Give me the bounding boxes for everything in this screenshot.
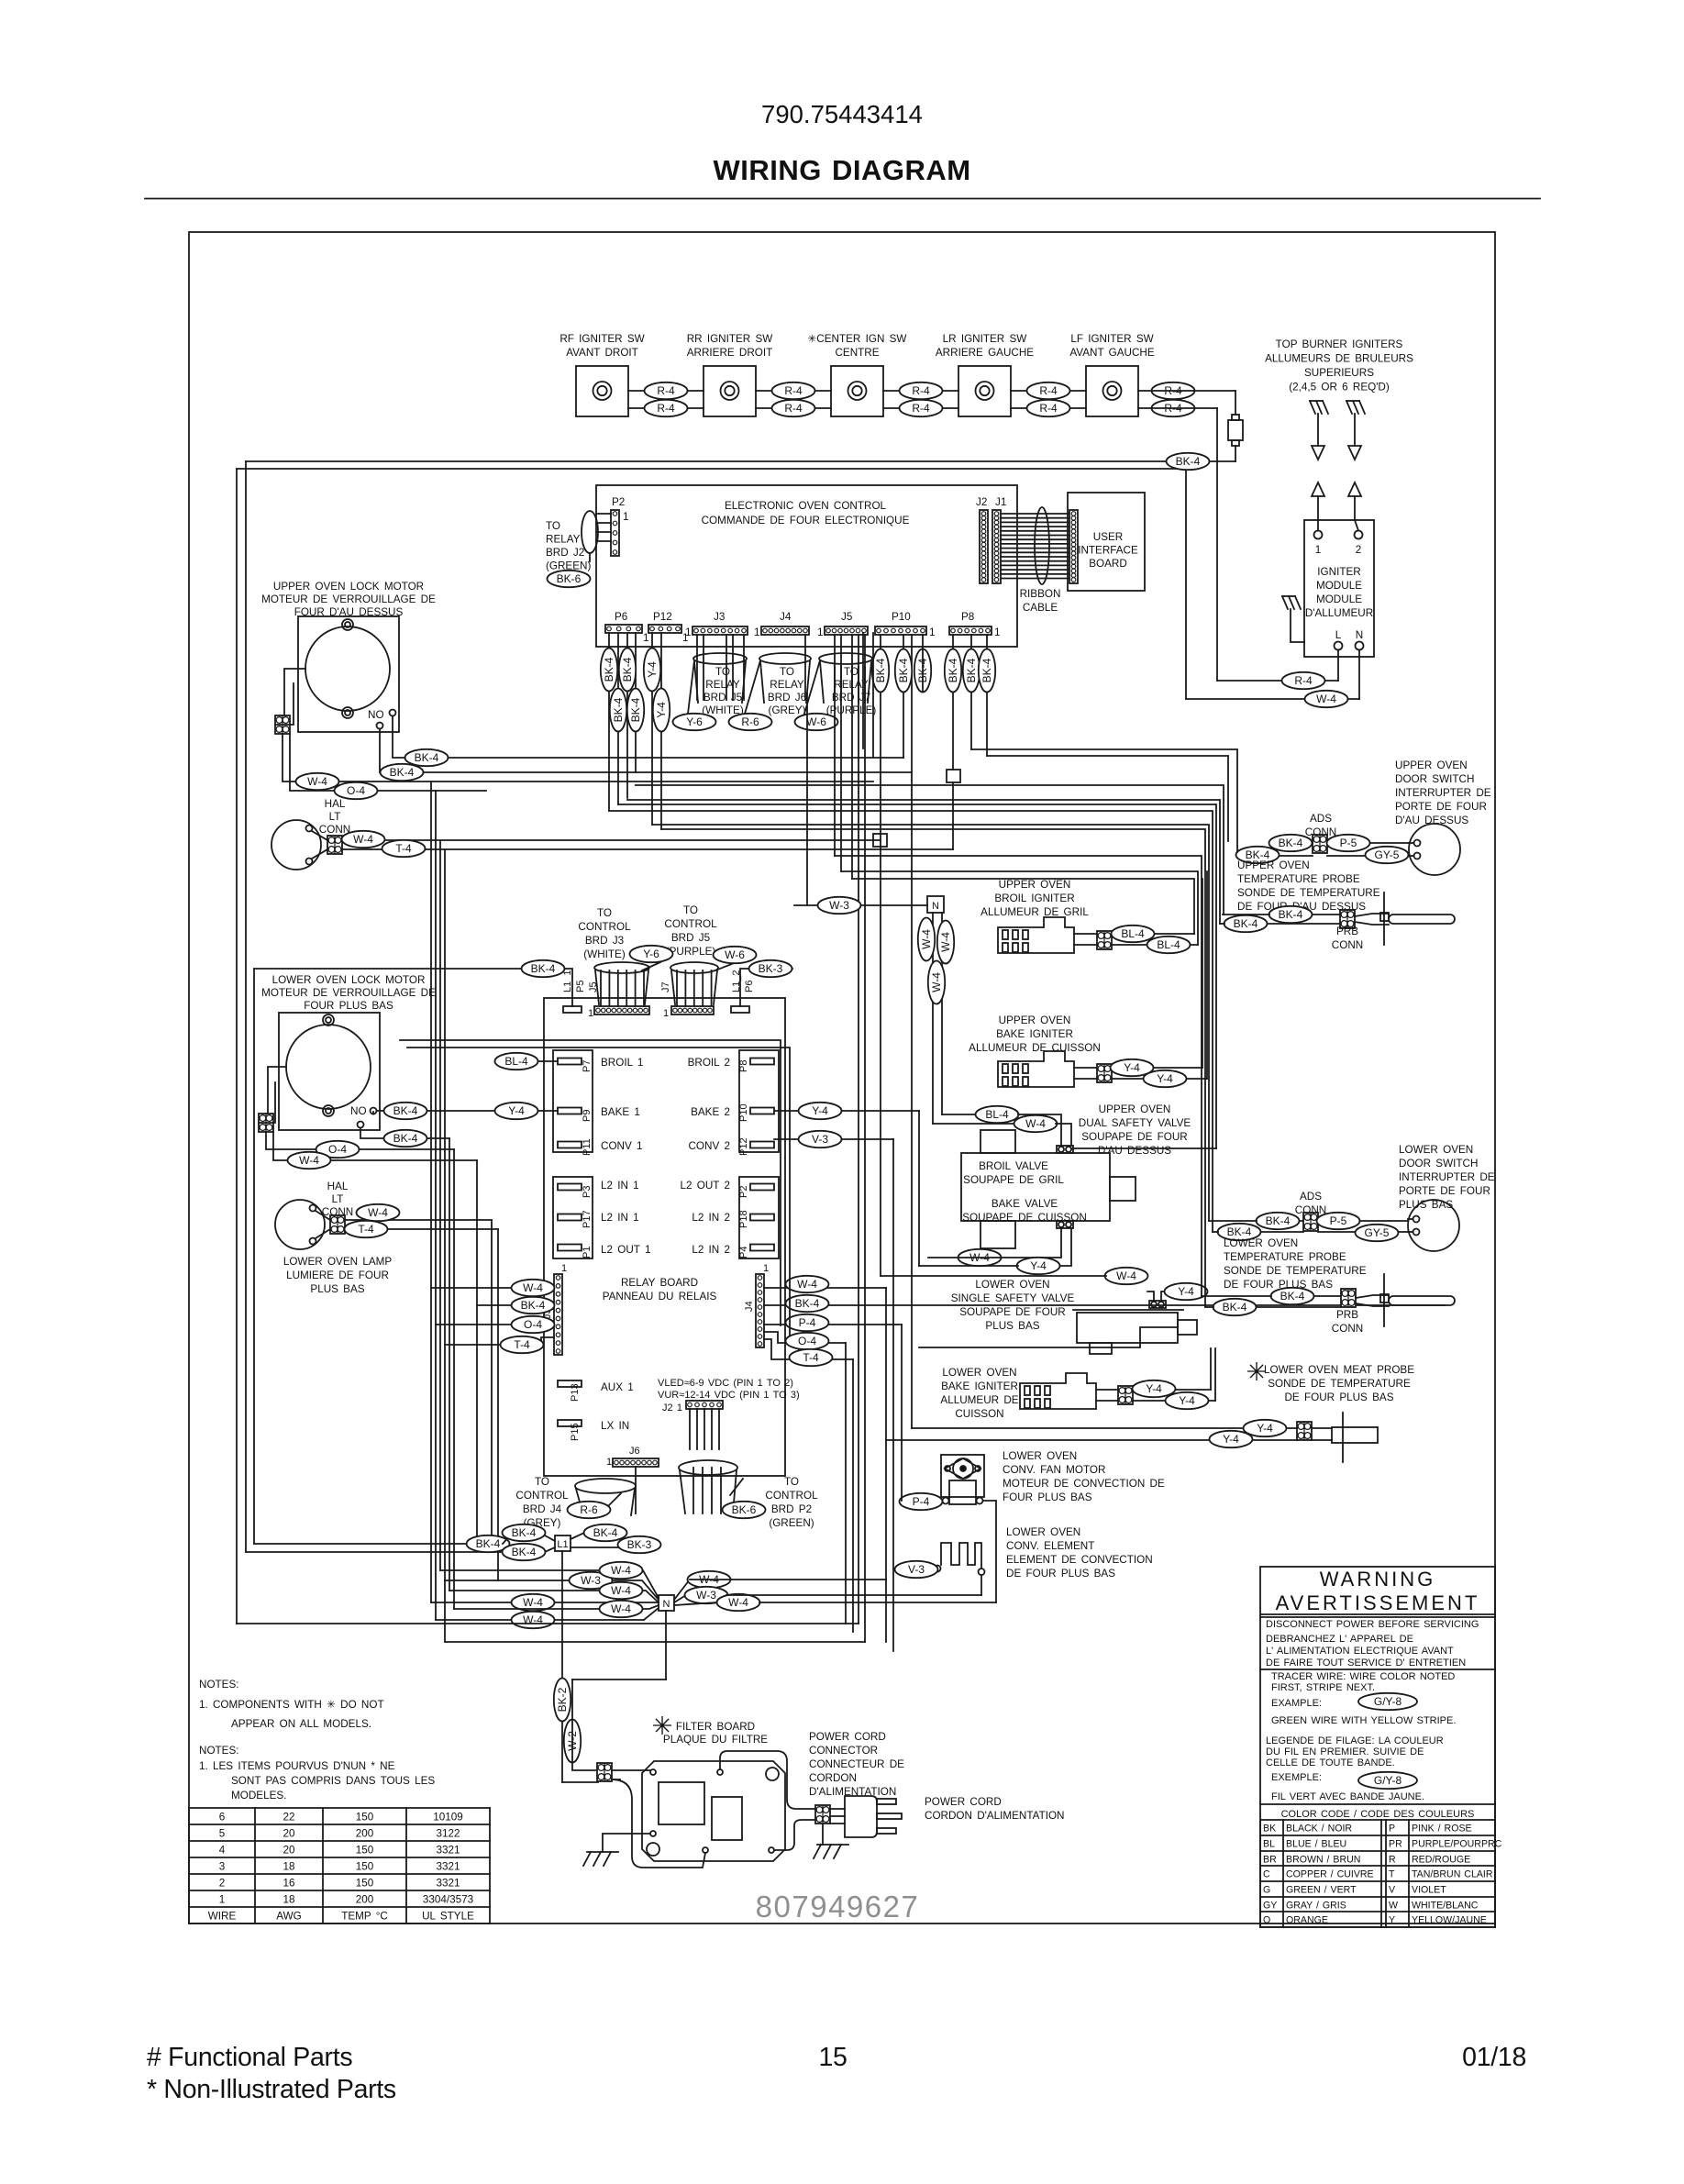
svg-text:DE FAIRE TOUT SERVICE D' E: DE FAIRE TOUT SERVICE D' ENTRETIEN: [1266, 1657, 1466, 1668]
wire mid: [806, 693, 808, 905]
svg-text:AVERTISSEMENT: AVERTISSEMENT: [1276, 1591, 1480, 1614]
svg-text:TRACER WIRE: WIRE COLOR NOT: TRACER WIRE: WIRE COLOR NOTED: [1271, 1671, 1455, 1682]
P2 cable oval: [582, 511, 598, 553]
svg-text:FOUR PLUS BAS: FOUR PLUS BAS: [1003, 1491, 1092, 1503]
svg-text:BK-4: BK-4: [393, 1104, 418, 1117]
wires ADS2: [1257, 1220, 1303, 1222]
warning separator 1: [1260, 1613, 1495, 1615]
svg-text:200: 200: [356, 1828, 374, 1840]
svg-text:1: 1: [663, 1008, 669, 1019]
svg-text:W-4: W-4: [1316, 693, 1336, 705]
wire label Y-4: [1166, 1392, 1209, 1409]
connector J1: [992, 510, 1001, 583]
wire to valve connector: [1071, 1147, 1216, 1149]
svg-text:R-4: R-4: [784, 384, 803, 397]
svg-text:P1: P1: [582, 1247, 593, 1258]
svg-text:RED/ROUGE: RED/ROUGE: [1412, 1855, 1470, 1866]
svg-text:O: O: [1263, 1915, 1270, 1926]
svg-text:200: 200: [356, 1894, 374, 1906]
wire label BK-4: [979, 649, 995, 693]
svg-text:ADS: ADS: [1300, 1191, 1322, 1203]
svg-text:P7: P7: [582, 1060, 593, 1072]
temp probe symbol: [1383, 892, 1385, 945]
svg-text:SONT PAS COMPRIS DANS TOUS: SONT PAS COMPRIS DANS TOUS LES: [231, 1775, 435, 1787]
svg-text:IGNITER: IGNITER: [1317, 566, 1360, 578]
svg-text:L2 OUT 1: L2 OUT 1: [601, 1244, 650, 1256]
svg-text:6: 6: [219, 1812, 226, 1824]
svg-text:2: 2: [219, 1878, 226, 1890]
svg-text:CONV. FAN MOTOR: CONV. FAN MOTOR: [1003, 1464, 1105, 1476]
filter component 2: [712, 1797, 742, 1840]
pin P3: [558, 1184, 582, 1191]
svg-text:150: 150: [356, 1812, 374, 1824]
svg-text:1: 1: [754, 626, 760, 638]
svg-text:22: 22: [283, 1812, 294, 1824]
filter pad 4: [703, 1847, 708, 1853]
wire label BK-4: [1167, 453, 1210, 470]
wire label BK-4: [1269, 835, 1313, 851]
bundle wire v: [845, 1343, 847, 1624]
wire from L: [1337, 650, 1339, 682]
svg-text:Y-4: Y-4: [1257, 1422, 1273, 1435]
svg-text:BK-4: BK-4: [980, 658, 993, 682]
J4 cable bundle: [804, 635, 806, 700]
connector P10: [875, 626, 926, 635]
svg-text:BK-4: BK-4: [476, 1537, 501, 1550]
svg-text:1: 1: [606, 1457, 612, 1468]
svg-text:P18: P18: [738, 1210, 749, 1228]
bundle wire: [439, 840, 441, 1570]
wire T-4 lamp: [342, 848, 953, 850]
wire label Y-4: [644, 649, 660, 692]
motor mount bottom: [342, 707, 353, 718]
svg-text:MOTEUR DE VERROUILLAGE DE: MOTEUR DE VERROUILLAGE DE: [261, 593, 436, 605]
wire label W-4: [688, 1571, 731, 1588]
svg-text:CONN: CONN: [1332, 939, 1363, 951]
J3 cable bundle: [696, 635, 698, 700]
svg-text:L2 OUT 2: L2 OUT 2: [681, 1180, 730, 1192]
wire label W-4: [512, 1612, 555, 1628]
svg-text:POWER CORD: POWER CORD: [925, 1796, 1002, 1808]
svg-text:R-4: R-4: [1039, 384, 1058, 397]
wire label W-2: [564, 1720, 581, 1763]
PRB connector 2: [1341, 1289, 1356, 1307]
svg-text:P8: P8: [738, 1060, 749, 1072]
wire label BL-4: [495, 1053, 538, 1070]
svg-text:BR: BR: [1263, 1855, 1277, 1866]
wire: [872, 633, 874, 758]
wire R-4 top: [756, 390, 831, 392]
wire fan right: [983, 1501, 997, 1602]
svg-text:O-4: O-4: [798, 1335, 816, 1347]
svg-text:LX IN: LX IN: [601, 1420, 629, 1432]
svg-text:Y-4: Y-4: [1179, 1394, 1195, 1407]
svg-text:VIOLET: VIOLET: [1412, 1885, 1446, 1896]
lock motor connector: [259, 1114, 273, 1132]
plug prong 2: [877, 1813, 902, 1819]
svg-text:2: 2: [1356, 544, 1362, 556]
wire label W-4: [512, 1594, 555, 1611]
svg-text:1: 1: [763, 1263, 769, 1274]
meat probe connector: [1297, 1422, 1312, 1440]
wire label W-4: [1305, 691, 1348, 707]
svg-text:LOWER OVEN MEAT PROBE: LOWER OVEN MEAT PROBE: [1264, 1364, 1414, 1376]
wires connector to plug: [830, 1808, 845, 1810]
igniter connector 3: [1118, 1386, 1133, 1404]
UIB connector: [1069, 510, 1078, 583]
wire BK-3 to P6: [740, 969, 792, 1006]
wire W-4 to N: [454, 1605, 659, 1609]
diagram border: [189, 232, 1495, 1923]
svg-text:P12: P12: [738, 1137, 749, 1156]
svg-text:W-6: W-6: [725, 948, 745, 961]
relay connector J6: [613, 1458, 659, 1467]
svg-text:P10: P10: [738, 1103, 749, 1122]
P2 wire: [596, 540, 611, 542]
J2 wires down: [689, 1409, 691, 1449]
wire label W-3: [570, 1572, 613, 1589]
svg-text:TO: TO: [844, 666, 859, 678]
igniter switch 5: [1086, 366, 1138, 416]
pin P13: [558, 1380, 582, 1387]
svg-text:NO: NO: [350, 1105, 367, 1117]
wire R-4 top: [883, 390, 958, 392]
meat probe symbol: [1342, 1413, 1344, 1462]
svg-text:TEMPERATURE PROBE: TEMPERATURE PROBE: [1224, 1251, 1346, 1263]
pin P9: [558, 1108, 582, 1114]
svg-text:GY: GY: [1263, 1901, 1277, 1912]
svg-text:P6: P6: [744, 981, 755, 992]
ADS connector 2: [1303, 1213, 1318, 1231]
wire BL-4 to P7: [495, 1060, 558, 1062]
wire label R-4: [645, 382, 688, 399]
wire from J5 bundle: [834, 667, 836, 856]
stub: [1209, 1220, 1257, 1222]
wire R-4 vertical to module L: [1216, 408, 1218, 681]
connector J3: [692, 626, 748, 635]
svg-text:UPPER OVEN: UPPER OVEN: [1237, 859, 1310, 871]
svg-text:P8: P8: [961, 611, 974, 623]
svg-text:3321: 3321: [436, 1845, 460, 1857]
svg-text:FIRST, STRIPE NEXT.: FIRST, STRIPE NEXT.: [1271, 1682, 1375, 1693]
wire label W-4: [928, 961, 945, 1004]
upper door switch S1: [1409, 824, 1460, 875]
svg-text:RELAY BOARD: RELAY BOARD: [621, 1277, 698, 1289]
wire W-4 from J4: [764, 1287, 886, 1289]
svg-text:1. LES ITEMS POURVUS D'NU: 1. LES ITEMS POURVUS D'NUN * NE: [199, 1760, 395, 1772]
svg-text:AVANT DROIT: AVANT DROIT: [566, 347, 638, 359]
svg-text:AWG: AWG: [276, 1911, 301, 1923]
valve bottom tube: [980, 1221, 1015, 1248]
svg-text:LEGENDE DE FILAGE: LA COULEU: LEGENDE DE FILAGE: LA COULEUR: [1266, 1735, 1444, 1746]
svg-text:W-4: W-4: [611, 1564, 631, 1577]
wire BK-4 probe: [1269, 914, 1340, 915]
bundle wire: [449, 1138, 450, 1591]
ribbon cable lines: [1001, 513, 1071, 515]
color code table: [1260, 1819, 1495, 1821]
svg-text:VUR≈12-14 VDC (PIN 1 TO 3): VUR≈12-14 VDC (PIN 1 TO 3): [658, 1390, 800, 1401]
svg-text:CORDON: CORDON: [809, 1772, 857, 1784]
svg-text:ORANGE: ORANGE: [1286, 1915, 1328, 1926]
J6 bundle below: [635, 1467, 637, 1513]
switch contact outer 2: [721, 382, 739, 400]
svg-text:NOTES:: NOTES:: [199, 1679, 239, 1691]
svg-text:01/18: 01/18: [1462, 2043, 1526, 2072]
svg-text:GREEN / VERT: GREEN / VERT: [1286, 1885, 1357, 1896]
svg-text:D'ALLUMEUR: D'ALLUMEUR: [1305, 607, 1373, 619]
wire P-4 fan: [902, 1500, 943, 1502]
svg-text:LOWER OVEN: LOWER OVEN: [975, 1279, 1049, 1291]
wire label G/Y-8: [1358, 1772, 1417, 1789]
wire label T-4: [790, 1349, 833, 1366]
stub: [1202, 1295, 1271, 1297]
wire label GY-5: [1366, 847, 1409, 863]
wire label BK-4: [1224, 915, 1268, 932]
svg-text:G: G: [1263, 1885, 1270, 1896]
wire BK-4 lower motor: [360, 1128, 449, 1139]
svg-text:TEMP °C: TEMP °C: [341, 1911, 388, 1923]
svg-text:BROIL 2: BROIL 2: [688, 1057, 730, 1069]
svg-text:L' ALIMENTATION ELECTRIQUE: L' ALIMENTATION ELECTRIQUE AVANT: [1266, 1646, 1454, 1657]
svg-text:V-3: V-3: [812, 1133, 828, 1146]
wire label R-4: [1027, 400, 1070, 416]
bus wire to ADS BK-4 upper: [987, 756, 1228, 841]
wire R-4 top: [1011, 390, 1086, 392]
connector J5: [825, 626, 868, 635]
svg-text:MOTEUR DE CONVECTION DE: MOTEUR DE CONVECTION DE: [1003, 1478, 1165, 1490]
stub: [1220, 923, 1224, 925]
svg-text:P3: P3: [582, 1186, 593, 1198]
svg-text:PRB: PRB: [1336, 1309, 1358, 1321]
leader from W-6: [715, 963, 734, 970]
bus wire to lower ADS: [609, 811, 1213, 1232]
svg-text:SONDE DE TEMPERATURE: SONDE DE TEMPERATURE: [1224, 1265, 1367, 1277]
svg-text:N: N: [663, 1599, 670, 1610]
power cord connector: [815, 1805, 830, 1824]
wire label BL-4: [1147, 937, 1191, 953]
relay connector group P7 P9 P11: [553, 1050, 593, 1152]
svg-text:R-4: R-4: [912, 402, 930, 415]
svg-text:ALLUMEUR DE: ALLUMEUR DE: [940, 1394, 1018, 1406]
wire R-4 top: [628, 390, 704, 392]
wire from EOC: [608, 633, 610, 811]
wire label W-4: [786, 1276, 829, 1292]
wire label R-4: [1027, 382, 1070, 399]
wire W-4 top bus: [237, 468, 1186, 470]
wire W-2 to filter: [572, 1680, 598, 1770]
svg-text:1: 1: [561, 1263, 567, 1274]
wire label Y-4: [653, 689, 670, 732]
svg-text:SUPERIEURS: SUPERIEURS: [1304, 367, 1374, 379]
wire L1 down to BK-2: [561, 1551, 563, 1782]
wire P8-3: [986, 635, 988, 756]
svg-text:BK-4: BK-4: [1234, 917, 1258, 930]
wire W-4 lamp 2: [345, 1219, 492, 1221]
svg-text:BRD J3: BRD J3: [585, 935, 624, 947]
wire filter lower to connector: [774, 1820, 816, 1850]
wire BK-4 to P5: [254, 969, 572, 1544]
svg-text:PLUS BAS: PLUS BAS: [985, 1320, 1039, 1332]
bus wire to broil BL-4 upper: [852, 879, 1194, 934]
svg-text:GREEN WIRE WITH YELLOW STRIPE.: GREEN WIRE WITH YELLOW STRIPE.: [1271, 1715, 1456, 1726]
svg-text:L2 IN 2: L2 IN 2: [692, 1244, 730, 1256]
wire O-4 from J4: [764, 1332, 846, 1343]
svg-text:P6: P6: [615, 611, 627, 623]
svg-text:BK-4: BK-4: [521, 1299, 546, 1312]
ribbon cable tie oval: [1035, 507, 1049, 584]
wire Y-4: [1112, 1067, 1202, 1069]
wire label P-4: [900, 1493, 943, 1510]
svg-text:1: 1: [643, 632, 649, 644]
svg-text:WIRE: WIRE: [208, 1911, 237, 1923]
svg-text:ARRIERE GAUCHE: ARRIERE GAUCHE: [936, 347, 1034, 359]
wire BK-4 top bus: [246, 460, 1235, 462]
wire label BK-4: [627, 689, 644, 732]
svg-text:O-4: O-4: [347, 784, 365, 797]
svg-text:18: 18: [283, 1861, 294, 1873]
pin P10: [750, 1108, 774, 1114]
wire label R-4: [1152, 382, 1195, 399]
bundle wire v: [918, 1111, 920, 1266]
wire label BK-4: [1236, 847, 1280, 863]
svg-text:P-5: P-5: [1330, 1214, 1347, 1227]
wire to fuse: [1138, 390, 1235, 392]
wire P-4 from J4: [764, 1324, 902, 1325]
igniter switch 2: [704, 366, 756, 416]
wire label W-4: [357, 1204, 400, 1221]
wire filter pad3 to ground: [603, 1834, 650, 1852]
wire label BK-4: [384, 1130, 427, 1147]
svg-text:ALLUMEURS DE BRULEURS: ALLUMEURS DE BRULEURS: [1265, 353, 1413, 365]
svg-text:BRD J2: BRD J2: [546, 547, 584, 559]
wire filter curve right: [720, 1751, 816, 1809]
svg-text:Y-4: Y-4: [1178, 1285, 1194, 1298]
svg-text:PR: PR: [1389, 1839, 1402, 1850]
svg-text:P-4: P-4: [913, 1495, 930, 1508]
svg-text:Y-4: Y-4: [1146, 1382, 1162, 1395]
wire R-4 bottom: [628, 407, 704, 409]
fan base: [949, 1480, 976, 1504]
svg-text:COMMANDE DE FOUR ELECTRONIQUE: COMMANDE DE FOUR ELECTRONIQUE: [702, 515, 910, 527]
filter ground: [587, 1851, 618, 1853]
wire label Y-4: [1210, 1431, 1253, 1447]
filter component 1: [659, 1782, 704, 1824]
pin P8: [750, 1059, 774, 1065]
igniter connector: [1097, 931, 1112, 949]
wire Y-4 valve bottom: [1058, 1228, 1071, 1266]
plug ground: [817, 1844, 848, 1846]
svg-text:BK-4: BK-4: [512, 1546, 537, 1558]
pin P11: [558, 1142, 582, 1148]
leader from Y-6: [642, 962, 660, 970]
svg-text:R: R: [1389, 1855, 1396, 1866]
J5 cable bundle: [834, 635, 836, 700]
wire label BL-4: [976, 1106, 1019, 1123]
svg-text:W-4: W-4: [1025, 1117, 1046, 1130]
wire label W-4: [512, 1280, 555, 1296]
svg-text:(2,4,5 OR 6 REQ'D): (2,4,5 OR 6 REQ'D): [1289, 382, 1390, 394]
spark symbol right: [1346, 401, 1352, 414]
connector J7 relay: [671, 1006, 714, 1014]
bundle wire v: [901, 1325, 903, 1501]
relay connector group P3 P17 P1: [553, 1177, 593, 1258]
wire BK-4 from J4: [764, 1304, 1445, 1306]
wire label R-4: [1282, 672, 1325, 689]
relay connector J3: [554, 1274, 562, 1355]
svg-text:TO: TO: [683, 904, 698, 916]
svg-text:L2 IN 1: L2 IN 1: [601, 1212, 639, 1224]
igniter connector 2: [1097, 1064, 1112, 1082]
lamp connector 2: [330, 1215, 345, 1234]
wire label BK-3: [618, 1536, 661, 1553]
wires Y-4 meat probe: [912, 1427, 1297, 1429]
connector P6: [605, 625, 642, 633]
upper bake igniter IG2: [998, 1051, 1074, 1087]
svg-text:LOWER OVEN: LOWER OVEN: [1006, 1526, 1080, 1538]
lock motor connector: [275, 715, 290, 734]
color code header line: [1260, 1803, 1495, 1805]
junction node B: [873, 834, 887, 847]
wire label GY-5: [1356, 1225, 1399, 1241]
wire from EOC: [626, 633, 628, 798]
stub: [1213, 1231, 1218, 1233]
svg-text:(GREEN): (GREEN): [769, 1517, 814, 1529]
svg-text:BK-4: BK-4: [393, 1132, 418, 1145]
pin P4: [750, 1245, 774, 1251]
svg-text:CONTROL: CONTROL: [515, 1490, 569, 1502]
wire label P-4: [786, 1314, 829, 1331]
svg-text:BROIL VALVE: BROIL VALVE: [979, 1160, 1048, 1172]
svg-text:DE FOUR PLUS BAS: DE FOUR PLUS BAS: [1224, 1279, 1333, 1291]
svg-text:C: C: [1263, 1869, 1270, 1880]
wire W-4 to N: [431, 1602, 659, 1603]
svg-text:EXEMPLE:: EXEMPLE:: [1271, 1772, 1322, 1783]
svg-text:15: 15: [818, 2043, 847, 2072]
wire label T-4: [382, 840, 426, 857]
wire label BK-6: [723, 1502, 766, 1518]
wire label BK-4: [1213, 1299, 1257, 1315]
svg-text:BK-3: BK-3: [627, 1538, 652, 1551]
wire label T-4: [501, 1336, 544, 1353]
motor circle: [286, 1025, 371, 1109]
svg-text:W: W: [1389, 1901, 1398, 1912]
svg-text:20: 20: [283, 1828, 295, 1840]
svg-text:W-4: W-4: [611, 1602, 631, 1615]
svg-text:BK-4: BK-4: [390, 766, 415, 779]
bundle wire: [476, 1160, 478, 1544]
svg-text:G/Y-8: G/Y-8: [1374, 1695, 1402, 1708]
wire label O-4: [512, 1316, 555, 1333]
svg-text:G/Y-8: G/Y-8: [1374, 1774, 1402, 1787]
svg-text:DE FOUR PLUS BAS: DE FOUR PLUS BAS: [1284, 1391, 1393, 1403]
wire BK-4/P-5 upper: [1269, 842, 1313, 844]
svg-text:(WHITE): (WHITE): [583, 948, 626, 960]
svg-text:20: 20: [283, 1845, 295, 1857]
upper oven lamp L1: [271, 820, 321, 870]
svg-text:TO: TO: [715, 666, 730, 678]
svg-text:P2: P2: [612, 496, 625, 508]
svg-text:R-4: R-4: [657, 402, 675, 415]
svg-text:TOP BURNER IGNITERS: TOP BURNER IGNITERS: [1276, 338, 1403, 350]
svg-text:BOARD: BOARD: [1089, 558, 1127, 570]
svg-text:R-4: R-4: [784, 402, 803, 415]
svg-text:Y-6: Y-6: [643, 948, 659, 960]
wire label R-4: [900, 400, 943, 416]
wire BL-4: [1112, 933, 1194, 935]
svg-text:DOOR SWITCH: DOOR SWITCH: [1395, 773, 1474, 785]
bundle wire v: [885, 1288, 887, 1642]
svg-text:J4: J4: [780, 611, 792, 623]
